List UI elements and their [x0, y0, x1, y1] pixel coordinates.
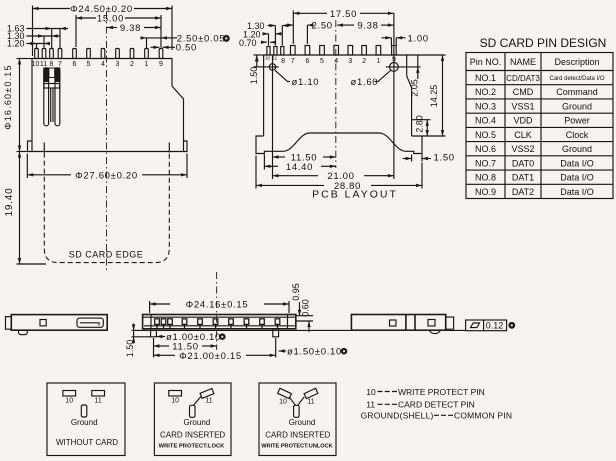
svg-text:Power: Power — [564, 116, 590, 126]
table col names — [506, 74, 540, 197]
dim 21.00 front — [154, 338, 276, 362]
svg-text:NO.3: NO.3 — [475, 101, 496, 111]
dim 11.50 front — [154, 338, 217, 358]
pcb pad 9 — [392, 46, 397, 56]
table frame — [466, 53, 613, 199]
dim 1.00 pcb — [382, 34, 429, 46]
pcb pad 3 — [348, 46, 353, 56]
pin 6 — [73, 49, 77, 59]
box WITHOUT CARD — [47, 383, 125, 456]
dim 24.50 — [33, 4, 173, 56]
svg-text:NO.8: NO.8 — [475, 173, 496, 183]
svg-text:NO.9: NO.9 — [475, 187, 496, 197]
pcb pad 10 — [267, 47, 270, 56]
pin number labels top view — [32, 61, 163, 68]
svg-text:7: 7 — [291, 58, 295, 65]
svg-text:2.50: 2.50 — [312, 21, 333, 32]
svg-text:CARD INSERTED: CARD INSERTED — [160, 430, 225, 439]
svg-text:Ground: Ground — [289, 418, 316, 427]
svg-text:17.50: 17.50 — [330, 9, 357, 20]
pin 4 — [101, 49, 105, 59]
svg-text:NO.2: NO.2 — [475, 87, 496, 97]
svg-text:10: 10 — [32, 61, 40, 68]
pcb pad 4 — [334, 46, 339, 56]
pcb pad 11 — [274, 47, 277, 56]
box CARD INSERTED LOCK — [154, 383, 231, 456]
dim ø1.50 — [279, 347, 348, 358]
PCB LAYOUT title — [312, 189, 398, 201]
dim 9.38 — [107, 23, 161, 34]
svg-text:0.60: 0.60 — [301, 299, 311, 317]
svg-text:19.40: 19.40 — [4, 187, 15, 216]
svg-text:11: 11 — [40, 61, 47, 68]
svg-text:Ground: Ground — [71, 418, 98, 427]
dim 2.50±0.05 — [141, 34, 230, 48]
table col pin numbers — [475, 73, 496, 197]
svg-text:DAT1: DAT1 — [512, 173, 534, 183]
pin 5 — [87, 49, 91, 59]
svg-text:9.38: 9.38 — [357, 21, 378, 32]
svg-text:NO.7: NO.7 — [475, 158, 496, 168]
table col descriptions — [549, 76, 604, 197]
front view dim 24.16 — [150, 300, 289, 314]
leader label ø1.60 — [351, 71, 391, 89]
dim 1.20 — [7, 39, 50, 49]
svg-text:1.50: 1.50 — [434, 153, 455, 164]
svg-text:10: 10 — [366, 387, 376, 397]
pin 2 — [130, 49, 134, 59]
pcb pad labels — [281, 57, 396, 66]
notes: ground shell common pin — [361, 411, 513, 421]
svg-text:Φ27.60±0.20: Φ27.60±0.20 — [75, 170, 138, 181]
box CARD INSERTED UNLOCK — [259, 383, 336, 456]
svg-text:Command: Command — [556, 87, 598, 97]
dim 0.60 — [296, 299, 313, 332]
svg-text:Ground: Ground — [562, 101, 592, 111]
svg-text:1.50: 1.50 — [249, 67, 259, 85]
notes: write protect pin — [366, 387, 484, 397]
dim 1.50 front left — [125, 324, 151, 358]
svg-text:PCB LAYOUT: PCB LAYOUT — [312, 189, 398, 201]
write protect switch slots — [43, 68, 60, 126]
svg-text:0.50: 0.50 — [176, 43, 197, 54]
dim 1.30 pcb — [247, 21, 289, 46]
dim 1.50 pcb right — [403, 153, 455, 164]
dim 0.95 — [291, 283, 313, 315]
card outline dashed — [44, 143, 169, 263]
svg-text:7: 7 — [58, 61, 62, 68]
svg-text:NO.6: NO.6 — [475, 144, 496, 154]
svg-text:1: 1 — [145, 61, 149, 68]
mount hole left 1.10 — [266, 55, 278, 179]
svg-text:CLK: CLK — [514, 130, 532, 140]
svg-text:GROUND(SHELL): GROUND(SHELL) — [361, 411, 434, 421]
seating plane line — [143, 329, 466, 331]
svg-text:NO.5: NO.5 — [475, 130, 496, 140]
svg-text:ø1.50±0.10: ø1.50±0.10 — [287, 347, 342, 358]
svg-text:3: 3 — [116, 61, 120, 68]
svg-text:VDD: VDD — [513, 116, 533, 126]
dim ø1.00 — [156, 332, 225, 343]
svg-text:WITHOUT CARD: WITHOUT CARD — [56, 438, 118, 447]
svg-text:1: 1 — [376, 58, 380, 65]
svg-text:1.50: 1.50 — [125, 340, 135, 358]
svg-text:11: 11 — [366, 400, 375, 410]
dim 2.50 pcb — [286, 21, 333, 44]
svg-text:Data I/O: Data I/O — [560, 187, 594, 197]
svg-text:1.00: 1.00 — [408, 34, 429, 45]
svg-text:9: 9 — [159, 61, 163, 68]
svg-text:0.12: 0.12 — [486, 320, 504, 330]
front view contacts — [155, 319, 280, 329]
svg-text:Data I/O: Data I/O — [560, 173, 594, 183]
svg-text:3: 3 — [348, 58, 352, 65]
svg-text:Card detect/Data I/O: Card detect/Data I/O — [549, 76, 604, 82]
svg-text:CD/DAT3: CD/DAT3 — [506, 74, 540, 83]
dim 0.50 — [151, 43, 197, 54]
svg-text:NO.4: NO.4 — [475, 116, 496, 126]
svg-text:Ground: Ground — [184, 418, 211, 427]
dim 19.40 vertical — [4, 152, 46, 265]
pcb centerline — [335, 20, 337, 168]
pcb pad 2 — [362, 46, 367, 56]
front view centerline — [216, 272, 218, 350]
table title — [480, 36, 607, 50]
svg-text:0.70: 0.70 — [239, 38, 257, 48]
svg-text:WRITE PROTECT PIN: WRITE PROTECT PIN — [398, 387, 485, 397]
pcb pad 7 — [291, 46, 296, 56]
svg-text:Pin NO.: Pin NO. — [470, 57, 502, 67]
svg-text:6: 6 — [305, 58, 309, 65]
svg-text:1.20: 1.20 — [7, 39, 25, 49]
svg-text:SD CARD PIN DESIGN: SD CARD PIN DESIGN — [480, 36, 607, 50]
svg-text:4: 4 — [101, 61, 105, 68]
front view body — [143, 315, 296, 329]
dim 27.60 — [27, 154, 187, 182]
svg-text:2.05: 2.05 — [410, 79, 420, 97]
svg-text:11: 11 — [205, 398, 212, 405]
svg-text:2: 2 — [130, 61, 134, 68]
svg-text:Ground: Ground — [562, 144, 592, 154]
svg-text:Φ16.60±0.15: Φ16.60±0.15 — [3, 64, 13, 129]
svg-text:8: 8 — [50, 61, 54, 68]
pin 3 — [116, 49, 120, 59]
svg-text:10: 10 — [279, 399, 287, 406]
svg-text:COMMON PIN: COMMON PIN — [454, 411, 512, 421]
svg-text:14.25: 14.25 — [429, 85, 439, 108]
svg-text:5: 5 — [87, 61, 91, 68]
svg-text:11: 11 — [272, 56, 277, 61]
pin 11 — [42, 49, 46, 59]
svg-text:NAME: NAME — [510, 57, 536, 67]
pin 7 — [58, 49, 62, 59]
mount hole right 1.60 — [386, 13, 421, 179]
svg-text:0.95: 0.95 — [291, 283, 301, 301]
svg-text:WRITE PROTECT:LOCK: WRITE PROTECT:LOCK — [159, 443, 226, 449]
pcb pad 6 — [305, 46, 310, 56]
svg-text:ø1.60: ø1.60 — [351, 77, 379, 88]
svg-text:Clock: Clock — [566, 130, 589, 140]
dim 21.00 pcb — [273, 171, 394, 182]
svg-text:10: 10 — [265, 56, 271, 61]
pin 10 — [35, 49, 39, 59]
svg-text:CARD DETECT PIN: CARD DETECT PIN — [398, 400, 475, 410]
svg-text:CMD: CMD — [513, 87, 534, 97]
dim 15.00 — [76, 14, 161, 48]
dim 11.50 pcb — [273, 153, 336, 164]
svg-text:10: 10 — [171, 398, 179, 405]
svg-text:2.80: 2.80 — [414, 115, 424, 133]
svg-text:5: 5 — [320, 58, 324, 65]
flatness tolerance box — [466, 320, 516, 331]
dim 1.30 — [7, 31, 60, 48]
svg-text:Description: Description — [554, 57, 599, 67]
dim 14.40 pcb — [264, 155, 335, 173]
dim 1.63 — [7, 24, 68, 49]
dim 9.38 pcb — [337, 21, 394, 32]
svg-text:WRITE PROTECT:UNLOCK: WRITE PROTECT:UNLOCK — [261, 443, 332, 449]
dim 0.70 pcb — [239, 38, 276, 48]
dim 17.50 — [293, 9, 394, 44]
pin 9 — [159, 49, 163, 59]
connector body outline (top view) — [28, 59, 188, 152]
left side view body — [6, 315, 108, 335]
pcb pad 8 — [281, 47, 284, 56]
dim 16.60 vertical — [3, 59, 32, 152]
svg-text:CARD INSERTED: CARD INSERTED — [265, 430, 330, 439]
svg-text:8: 8 — [281, 58, 285, 65]
svg-text:ø1.10: ø1.10 — [292, 77, 320, 88]
dim 1.20 pcb — [243, 30, 281, 46]
right side view body — [351, 315, 453, 334]
SD CARD EDGE label — [69, 250, 144, 260]
svg-text:10: 10 — [65, 398, 73, 405]
svg-text:Φ21.00±0.15: Φ21.00±0.15 — [179, 351, 242, 362]
dim 28.80 pcb — [256, 156, 422, 193]
dim 2.80 — [412, 115, 431, 136]
svg-text:2: 2 — [362, 58, 366, 65]
notes: card detect pin — [366, 400, 475, 410]
centerline top view — [106, 12, 108, 272]
svg-text:VSS1: VSS1 — [511, 101, 534, 111]
front view legs — [151, 329, 279, 337]
pcb pad 5 — [320, 46, 325, 56]
svg-text:6: 6 — [73, 61, 77, 68]
svg-text:DAT2: DAT2 — [512, 187, 534, 197]
svg-text:DAT0: DAT0 — [512, 158, 534, 168]
dim 1.50 pcb left — [249, 55, 266, 84]
pcb body outline — [256, 55, 422, 154]
svg-text:Data I/O: Data I/O — [560, 158, 594, 168]
dim 14.25 — [407, 55, 446, 136]
pcb pad 1 — [376, 46, 381, 56]
dim 2.05 — [410, 55, 420, 97]
svg-text:14.40: 14.40 — [286, 162, 313, 173]
svg-text:11: 11 — [94, 398, 101, 405]
table header — [470, 57, 600, 67]
svg-text:VSS2: VSS2 — [511, 144, 534, 154]
pin 8 — [50, 49, 54, 59]
pin 1 — [145, 49, 149, 59]
svg-text:NO.1: NO.1 — [475, 73, 496, 83]
svg-text:9.38: 9.38 — [120, 23, 141, 34]
svg-text:11: 11 — [307, 399, 314, 406]
leader label ø1.10 — [275, 70, 319, 88]
